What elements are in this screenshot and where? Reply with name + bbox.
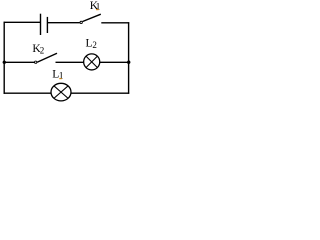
svg-text:2: 2 xyxy=(92,40,97,50)
svg-text:2: 2 xyxy=(40,45,45,55)
svg-text:1: 1 xyxy=(59,72,64,82)
svg-text:1: 1 xyxy=(96,3,101,13)
